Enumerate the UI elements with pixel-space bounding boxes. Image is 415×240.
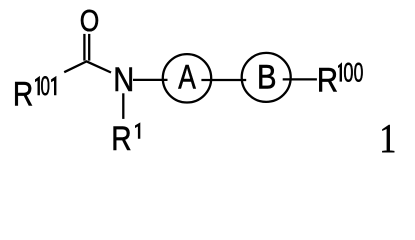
svg-text:0: 0 <box>40 71 49 101</box>
svg-text:1: 1 <box>379 116 396 162</box>
bond N to R1 <box>122 93 124 119</box>
svg-text:R: R <box>317 60 338 99</box>
svg-text:R: R <box>13 75 33 113</box>
superscript digit 1 of 101 <box>35 76 40 95</box>
double bond C=O left line <box>83 34 85 61</box>
ring B circle <box>242 53 291 102</box>
bond ring B to R100 <box>283 78 317 80</box>
bond ring A to ring B <box>201 79 246 81</box>
svg-text:N: N <box>113 60 134 99</box>
svg-text:O: O <box>80 4 100 38</box>
svg-text:B: B <box>257 58 277 97</box>
ring A circle <box>163 54 211 102</box>
svg-text:A: A <box>178 60 196 97</box>
superscript digit 1 of 100 <box>338 62 342 81</box>
superscript 1 of R1 <box>135 122 140 138</box>
bond N to ring A <box>133 79 168 81</box>
svg-text:0: 0 <box>354 56 364 87</box>
svg-text:R: R <box>111 120 131 158</box>
superscript second digit 1 of 101 <box>51 76 56 95</box>
double bond C=O right line <box>88 34 90 61</box>
bond R101 to carbonyl C and bond carbonyl C to N <box>64 61 111 72</box>
svg-text:0: 0 <box>343 57 353 88</box>
